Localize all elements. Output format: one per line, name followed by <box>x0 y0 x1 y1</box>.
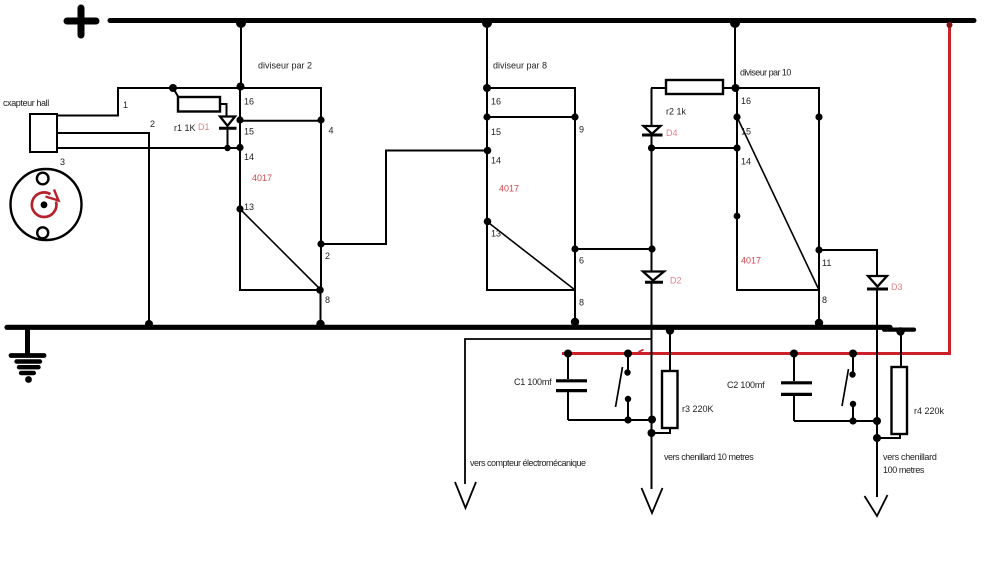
resistor r4 220k <box>877 331 907 438</box>
node block3 pin16 right <box>815 113 822 120</box>
node block2 pin8 ground junction <box>571 318 579 326</box>
svg-text:14: 14 <box>741 157 751 167</box>
ground rail end segment <box>884 328 914 332</box>
svg-text:13: 13 <box>244 202 254 212</box>
svg-text:C2 100mf: C2 100mf <box>727 380 765 390</box>
wire C2 bottom to switch2 bottom <box>794 420 853 422</box>
svg-text:1: 1 <box>123 100 128 110</box>
node r4 top on ground rail <box>896 327 904 335</box>
IC U2 4017 outline <box>487 88 575 290</box>
node top rail / block3 supply junction <box>730 18 740 28</box>
svg-text:diviseur par 10: diviseur par 10 <box>740 68 791 78</box>
svg-text:cxapteur hall: cxapteur hall <box>3 98 49 108</box>
wire hall pin1 to block1 pin16 rail <box>57 88 240 116</box>
node block2 pin9 <box>571 113 578 120</box>
svg-text:D1: D1 <box>198 122 210 132</box>
node block1 pin14 <box>236 144 243 151</box>
motor M (rotating wheel with hall magnets) <box>11 169 82 240</box>
wire D3 cathode down to output arrow <box>876 290 878 497</box>
ground rail wire <box>7 325 890 330</box>
svg-text:8: 8 <box>822 295 827 305</box>
diode D3 <box>867 276 888 289</box>
node block1 pin15 <box>236 116 243 123</box>
svg-text:16: 16 <box>741 96 751 106</box>
node block2 pin6 <box>571 245 578 252</box>
wire block3 pin8 to ground <box>818 290 820 325</box>
node block1 pin8 <box>316 286 324 294</box>
svg-text:14: 14 <box>244 152 254 162</box>
wire block3 supply from rail <box>734 21 736 89</box>
wire switch2 bottom to D3 output line <box>853 420 877 422</box>
node D4 cathode junction <box>648 144 655 151</box>
node block1 pin8 ground junction <box>316 320 324 328</box>
svg-text:9: 9 <box>579 125 584 135</box>
node block3 pin14 <box>733 144 740 151</box>
svg-text:vers compteur électromécanique: vers compteur électromécanique <box>470 458 586 468</box>
node timing junction on D2 line <box>648 416 656 424</box>
svg-text:8: 8 <box>325 295 330 305</box>
node block1 supply corner <box>237 83 245 91</box>
wire D2 cathode down to output arrow <box>651 283 653 489</box>
wire red stray tick <box>639 350 644 353</box>
node block3 pin13 <box>734 213 741 220</box>
wire block2 pin13 to pin8 diagonal <box>487 222 575 291</box>
resistor r1 1K <box>173 88 227 116</box>
svg-text:2: 2 <box>150 119 155 129</box>
node block1 pin4 <box>317 116 324 123</box>
node r3 top on ground rail <box>666 326 674 334</box>
svg-text:100 metres: 100 metres <box>883 465 925 475</box>
svg-text:4017: 4017 <box>741 256 761 266</box>
node red wire top junction <box>947 22 953 28</box>
wire block2 pin6 to D2 <box>575 248 652 250</box>
capacitor C1 <box>556 354 587 421</box>
svg-text:14: 14 <box>491 156 501 166</box>
svg-text:15: 15 <box>244 127 254 137</box>
node timing junction on D3 line <box>873 417 881 425</box>
svg-text:diviseur par 2: diviseur par 2 <box>258 61 312 71</box>
node block3 pin8 ground junction <box>815 319 823 327</box>
svg-text:4017: 4017 <box>252 173 272 183</box>
svg-text:D4: D4 <box>666 128 678 138</box>
wire block1 supply from rail <box>240 21 242 88</box>
svg-text:C1 100mf: C1 100mf <box>514 377 552 387</box>
wire r2 to D4 anode <box>651 88 653 125</box>
node top rail / block1 supply junction <box>236 18 246 28</box>
svg-text:16: 16 <box>244 97 254 107</box>
node block1 pin2 <box>317 240 324 247</box>
svg-text:vers chenillard 10 metres: vers chenillard 10 metres <box>664 452 754 462</box>
node top rail / block2 supply junction <box>482 18 492 28</box>
node D2 anode junction <box>648 245 655 252</box>
node block2 supply corner <box>483 84 491 92</box>
wire block3 pin11 to D3 <box>819 250 877 276</box>
wire hall pin2 to ground <box>57 133 149 326</box>
node r3 bottom junction <box>648 429 656 437</box>
node hall pin2 ground junction <box>145 320 153 328</box>
node block3 supply / r2 junction <box>732 84 740 92</box>
resistor r2 1k <box>651 80 737 94</box>
wire C1 bottom to switch1 bottom <box>568 419 628 421</box>
wire D4 cathode to block3 pin14 <box>652 147 738 149</box>
svg-text:r3 220K: r3 220K <box>682 404 714 414</box>
node block3 pin15 <box>733 113 740 120</box>
svg-text:r4 220k: r4 220k <box>914 406 945 416</box>
svg-text:11: 11 <box>822 258 831 268</box>
wire block1 pin2 to block2 pin14 <box>321 151 487 245</box>
IC U1 4017 outline <box>240 88 321 290</box>
svg-text:6: 6 <box>579 256 584 266</box>
wire D4 junction down to D2 anode <box>651 148 653 271</box>
diode D1 <box>219 117 237 149</box>
svg-text:diviseur par 8: diviseur par 8 <box>493 61 547 71</box>
node block1 pin13 <box>236 205 243 212</box>
svg-text:15: 15 <box>491 127 501 137</box>
svg-text:13: 13 <box>491 229 501 239</box>
switch SW1 <box>616 350 633 424</box>
wire block3 pin15 to pin8 diagonal <box>737 117 819 290</box>
svg-text:vers chenillard: vers chenillard <box>883 452 937 462</box>
wire hall pin3 to block1 pin14 <box>57 147 240 149</box>
svg-text:4: 4 <box>329 126 334 136</box>
svg-text:16: 16 <box>491 97 501 107</box>
wire block2 pin15 to pin9 <box>487 116 575 118</box>
node D1 cathode / pin14 wire junction <box>224 145 230 151</box>
node block3 pin11 <box>815 246 822 253</box>
ground symbol <box>11 329 44 383</box>
wire block1 pin15 to pin4 <box>240 120 321 122</box>
svg-text:2: 2 <box>325 251 330 261</box>
svg-text:3: 3 <box>60 157 65 167</box>
IC U3 4017 outline <box>737 88 819 290</box>
wire block1 pin13 to pin8 diagonal <box>240 209 320 289</box>
svg-text:D2: D2 <box>670 276 682 286</box>
arrow vers compteur <box>455 482 476 508</box>
capacitor C2 <box>781 354 812 422</box>
svg-text:15: 15 <box>741 127 751 137</box>
svg-text:r1 1K: r1 1K <box>174 123 196 133</box>
svg-text:4017: 4017 <box>499 184 519 194</box>
diode D2 <box>643 272 664 283</box>
svg-text:8: 8 <box>579 298 584 308</box>
wire block1 pin8 to ground <box>320 290 322 326</box>
node r4 bottom junction <box>873 434 881 442</box>
svg-text:D3: D3 <box>891 282 903 292</box>
svg-text:r2 1k: r2 1k <box>666 107 687 117</box>
diode D4 <box>642 126 663 148</box>
node r1 left junction <box>169 84 177 92</box>
plus symbol V+ <box>67 8 96 35</box>
arrow vers chenillard 100 metres <box>865 495 888 516</box>
resistor r3 220K <box>652 331 678 433</box>
red wire from top rail to RC timing nodes <box>562 24 950 354</box>
node C2 top on red wire <box>790 350 798 358</box>
switch SW2 <box>842 350 857 425</box>
node block2 pin14 <box>484 147 492 155</box>
wire block2 pin8 to ground <box>574 290 576 324</box>
node block2 pin13 <box>484 218 492 226</box>
wire switch1 bottom to D2 output line <box>628 419 652 421</box>
wire vers compteur tap <box>465 339 652 484</box>
hall sensor U-hall <box>30 114 57 152</box>
arrow vers chenillard 10 metres <box>642 488 663 513</box>
node C1 top on red wire <box>564 350 572 358</box>
top supply rail wire <box>110 18 974 23</box>
wire block2 supply from rail <box>486 21 488 88</box>
node block2 pin15 <box>483 113 490 120</box>
